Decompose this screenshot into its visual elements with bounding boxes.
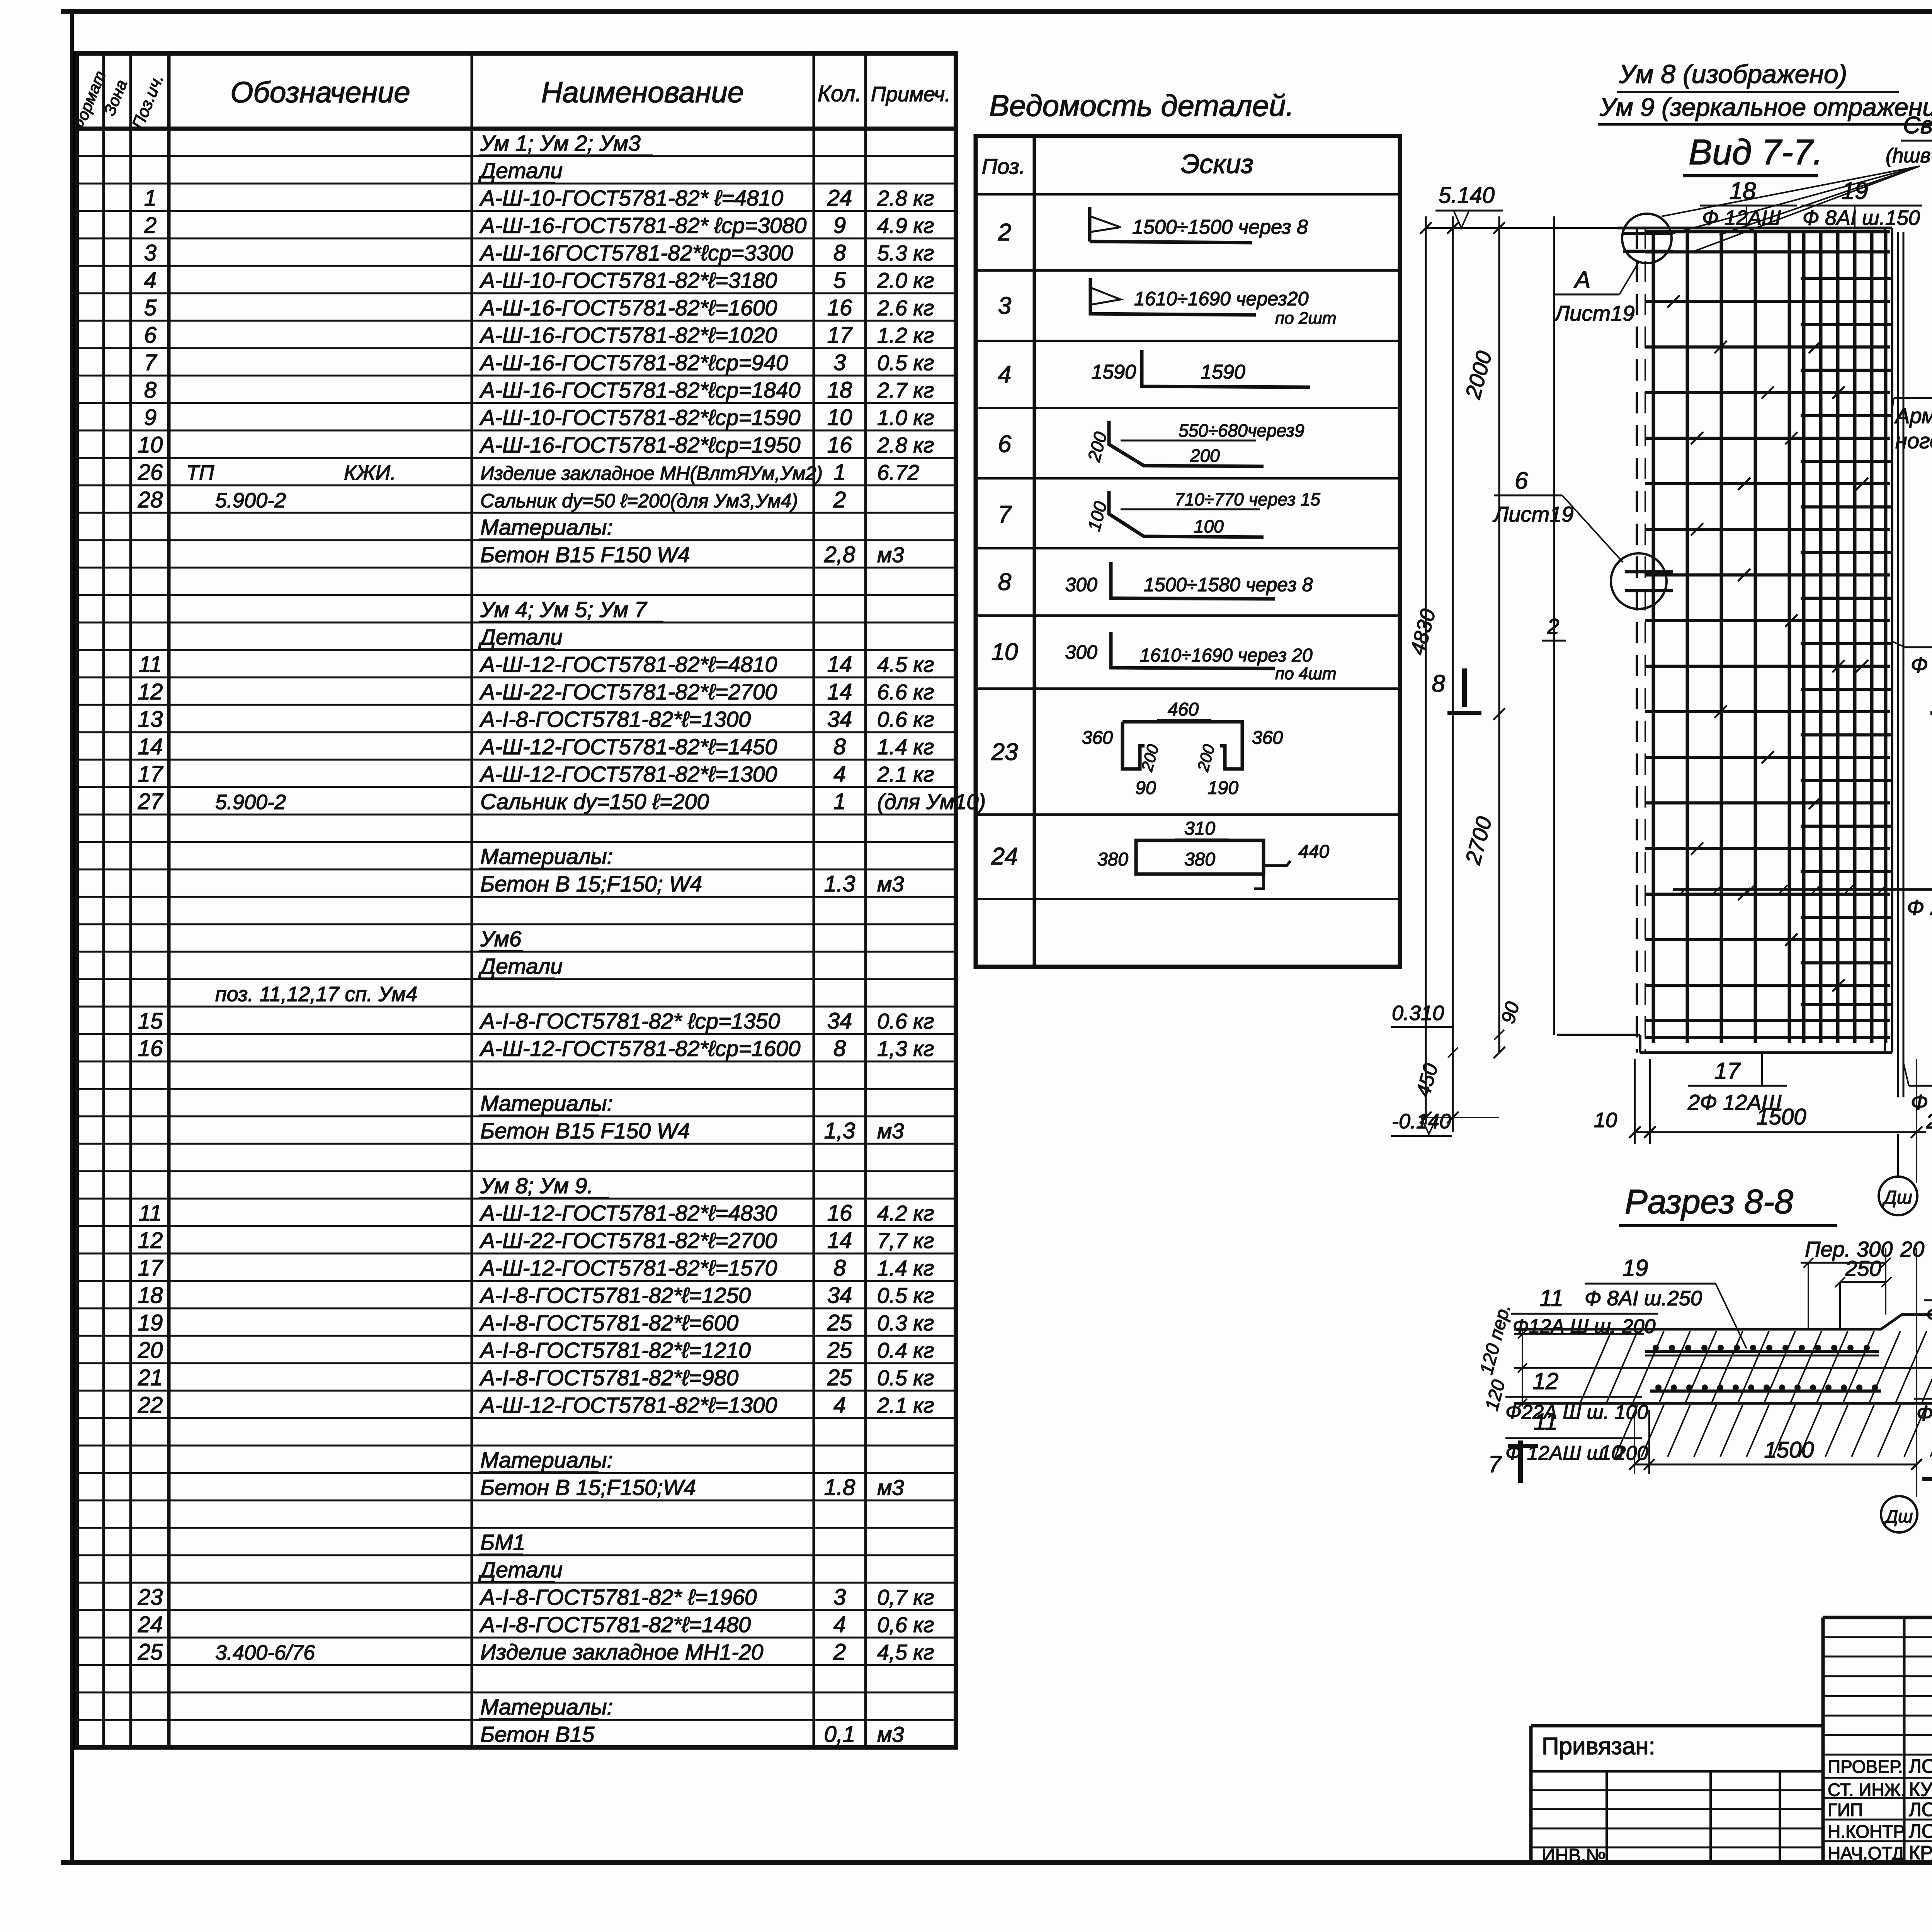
svg-text:2.0 кг: 2.0 кг <box>877 268 934 293</box>
svg-text:450: 450 <box>1412 1061 1442 1099</box>
lower rebar with dots <box>1650 1389 1881 1393</box>
svg-text:300: 300 <box>1065 574 1098 595</box>
svg-text:9: 9 <box>144 405 156 430</box>
svg-text:10: 10 <box>992 639 1018 665</box>
svg-text:2.8 кг: 2.8 кг <box>877 433 934 457</box>
bottom-left bent bar step <box>1557 1034 1640 1036</box>
svg-text:А-I-8-ГОСТ5781-82*ℓ=1300: А-I-8-ГОСТ5781-82*ℓ=1300 <box>479 707 751 732</box>
section mark 8 left <box>1462 668 1467 707</box>
svg-text:Примеч.: Примеч. <box>871 83 951 106</box>
svg-text:КУРГАНОВА: КУРГАНОВА <box>1909 1779 1932 1800</box>
svg-text:1500: 1500 <box>1764 1437 1814 1463</box>
svg-text:Ум 9 (зеркальное отражение): Ум 9 (зеркальное отражение) <box>1599 93 1932 121</box>
svg-text:8: 8 <box>144 378 156 403</box>
specification row lines <box>77 155 956 157</box>
svg-text:2: 2 <box>833 487 846 512</box>
svg-text:Лист19: Лист19 <box>1493 502 1573 526</box>
svg-text:Поз.: Поз. <box>982 154 1026 179</box>
sketch row 7 <box>1109 491 1264 537</box>
svg-text:ИНВ.№: ИНВ.№ <box>1542 1845 1606 1866</box>
svg-text:2000: 2000 <box>1460 349 1496 402</box>
svg-text:А-Ш-12-ГОСТ5781-82*ℓ=1570: А-Ш-12-ГОСТ5781-82*ℓ=1570 <box>479 1256 777 1281</box>
svg-text:ПРОВЕР.: ПРОВЕР. <box>1828 1757 1903 1777</box>
svg-text:Сальник dy=150 ℓ=200: Сальник dy=150 ℓ=200 <box>480 789 709 814</box>
svg-text:Ф22А Ш ш. 100: Ф22А Ш ш. 100 <box>1505 1401 1648 1423</box>
svg-text:(для Ум10): (для Ум10) <box>877 789 986 814</box>
svg-text:А-Ш-22-ГОСТ5781-82*ℓ=2700: А-Ш-22-ГОСТ5781-82*ℓ=2700 <box>479 1228 777 1253</box>
svg-text:25: 25 <box>827 1365 852 1390</box>
svg-text:Арматура мон: Арматура мон <box>1894 403 1932 428</box>
svg-text:6.6 кг: 6.6 кг <box>877 680 934 704</box>
svg-text:0,6 кг: 0,6 кг <box>877 1612 934 1637</box>
svg-text:4: 4 <box>833 1612 846 1637</box>
svg-text:3: 3 <box>144 240 156 265</box>
privyazan box <box>1531 1724 1823 1728</box>
svg-text:1: 1 <box>144 185 156 211</box>
svg-text:А-I-8-ГОСТ5781-82* ℓ=1960: А-I-8-ГОСТ5781-82* ℓ=1960 <box>479 1585 757 1610</box>
svg-text:0.5 кг: 0.5 кг <box>877 1366 934 1390</box>
section marks 7 <box>1518 1440 1523 1483</box>
svg-text:2: 2 <box>998 219 1011 246</box>
svg-text:Эскиз: Эскиз <box>1181 149 1253 179</box>
svg-text:2: 2 <box>833 1639 846 1665</box>
svg-text:100: 100 <box>1083 499 1111 533</box>
diagonal hatch below <box>1615 1405 1638 1457</box>
svg-text:380: 380 <box>1097 849 1128 870</box>
svg-text:ГИП: ГИП <box>1828 1800 1863 1820</box>
svg-text:28: 28 <box>138 487 163 512</box>
sketch row 23 : bracket detail <box>1122 722 1242 769</box>
svg-text:ЛОУЦКЕР: ЛОУЦКЕР <box>1909 1799 1932 1820</box>
svg-text:А-Ш-22-ГОСТ5781-82*ℓ=2700: А-Ш-22-ГОСТ5781-82*ℓ=2700 <box>479 680 777 704</box>
svg-text:24: 24 <box>827 185 852 211</box>
svg-text:23: 23 <box>991 739 1018 765</box>
svg-text:34: 34 <box>827 707 852 732</box>
svg-text:Сальник dy=50 ℓ=200(для Ум3,Ум: Сальник dy=50 ℓ=200(для Ум3,Ум4) <box>480 490 798 512</box>
svg-text:Детали: Детали <box>478 954 563 979</box>
svg-text:13: 13 <box>138 707 163 732</box>
svg-text:А-Ш-12-ГОСТ5781-82*ℓ=4810: А-Ш-12-ГОСТ5781-82*ℓ=4810 <box>479 652 777 677</box>
Dsh circle bottom <box>1881 1496 1917 1532</box>
svg-text:А-I-8-ГОСТ5781-82*ℓ=980: А-I-8-ГОСТ5781-82*ℓ=980 <box>479 1366 739 1390</box>
svg-text:6: 6 <box>1515 468 1528 494</box>
sketch row 2 <box>1090 207 1252 243</box>
svg-text:Бетон В15: Бетон В15 <box>480 1722 595 1747</box>
svg-text:Кол.: Кол. <box>818 81 862 106</box>
svg-text:А-Ш-10-ГОСТ5781-82* ℓ=4810: А-Ш-10-ГОСТ5781-82* ℓ=4810 <box>479 186 783 211</box>
svg-text:2.7 кг: 2.7 кг <box>877 378 934 402</box>
svg-text:БМ1: БМ1 <box>480 1530 525 1555</box>
svg-text:190: 190 <box>1207 778 1238 798</box>
svg-text:11: 11 <box>1539 1285 1563 1311</box>
svg-text:16: 16 <box>827 295 852 320</box>
svg-text:1,3: 1,3 <box>824 1118 855 1143</box>
svg-text:0,1: 0,1 <box>824 1722 855 1747</box>
svg-text:Дш: Дш <box>1884 1506 1913 1526</box>
svg-text:Ф12А Ш ш. 200: Ф12А Ш ш. 200 <box>1513 1315 1656 1338</box>
svg-text:25: 25 <box>827 1338 852 1363</box>
svg-text:ЛОУЦКЕР: ЛОУЦКЕР <box>1909 1755 1932 1777</box>
svg-text:5.3 кг: 5.3 кг <box>877 241 934 265</box>
svg-text:по 2шт: по 2шт <box>1275 309 1337 328</box>
svg-text:310: 310 <box>1184 818 1215 839</box>
svg-text:9: 9 <box>833 213 846 238</box>
svg-text:Поз.ич.: Поз.ич. <box>128 71 167 132</box>
svg-text:Материалы:: Материалы: <box>480 515 613 540</box>
svg-text:20: 20 <box>138 1338 163 1363</box>
svg-text:14: 14 <box>827 652 852 677</box>
svg-text:12: 12 <box>1533 1368 1559 1394</box>
sketch row 8 <box>1111 562 1275 599</box>
svg-text:Привязан:: Привязан: <box>1542 1733 1655 1760</box>
svg-text:6.72: 6.72 <box>877 460 919 485</box>
svg-text:Н.КОНТР: Н.КОНТР <box>1828 1821 1905 1842</box>
label 12 right with bar line <box>1673 888 1932 891</box>
bottom dim 10 1500 <box>1634 1464 1917 1466</box>
svg-text:25: 25 <box>138 1639 163 1665</box>
svg-text:8: 8 <box>833 1036 846 1061</box>
callout circle 6 mid left <box>1611 553 1667 609</box>
svg-text:4.5 кг: 4.5 кг <box>877 652 934 677</box>
svg-text:5.140: 5.140 <box>1439 183 1495 208</box>
svg-text:А-I-8-ГОСТ5781-82*ℓ=1250: А-I-8-ГОСТ5781-82*ℓ=1250 <box>479 1283 751 1308</box>
svg-text:200: 200 <box>1194 742 1218 774</box>
svg-text:21: 21 <box>138 1365 163 1390</box>
svg-text:7: 7 <box>144 350 158 375</box>
wall right edge double line <box>1884 228 1886 1053</box>
svg-text:8: 8 <box>833 734 846 759</box>
svg-text:11: 11 <box>1534 1409 1558 1435</box>
svg-text:1500÷1500 через 8: 1500÷1500 через 8 <box>1132 216 1308 238</box>
svg-text:5.900-2: 5.900-2 <box>215 791 286 814</box>
svg-text:А-I-8-ГОСТ5781-82* ℓср=1350: А-I-8-ГОСТ5781-82* ℓср=1350 <box>479 1009 780 1034</box>
svg-text:КРАСАВИН: КРАСАВИН <box>1909 1842 1932 1864</box>
svg-text:6: 6 <box>998 431 1012 457</box>
svg-text:16: 16 <box>138 1036 163 1061</box>
svg-text:1590: 1590 <box>1201 361 1245 383</box>
vedomost row lines <box>976 193 1400 196</box>
svg-text:ЛОУЦКЕР: ЛОУЦКЕР <box>1909 1820 1932 1842</box>
svg-text:16: 16 <box>827 1201 852 1226</box>
svg-text:А-Ш-16-ГОСТ5781-82*ℓср=1950: А-Ш-16-ГОСТ5781-82*ℓср=1950 <box>479 433 801 457</box>
svg-text:710÷770 через 15: 710÷770 через 15 <box>1175 489 1320 509</box>
svg-text:А-Ш-16-ГОСТ5781-82*ℓ=1020: А-Ш-16-ГОСТ5781-82*ℓ=1020 <box>479 323 777 348</box>
vedomost table box <box>976 136 1400 967</box>
svg-text:Бетон В15 F150 W4: Бетон В15 F150 W4 <box>480 543 690 567</box>
svg-text:Материалы:: Материалы: <box>480 844 613 869</box>
svg-text:Бетон В15 F150 W4: Бетон В15 F150 W4 <box>480 1119 690 1143</box>
svg-text:Лист19: Лист19 <box>1554 301 1634 325</box>
svg-text:м3: м3 <box>877 1722 904 1747</box>
svg-text:А: А <box>1573 267 1590 293</box>
svg-text:А-Ш-16-ГОСТ5781-82*ℓ=1600: А-Ш-16-ГОСТ5781-82*ℓ=1600 <box>479 296 777 320</box>
svg-text:Ф 8АI ш.150: Ф 8АI ш.150 <box>1803 206 1920 230</box>
svg-text:22: 22 <box>138 1393 163 1418</box>
svg-text:3.400-6/76: 3.400-6/76 <box>215 1641 315 1664</box>
sketch row 4 <box>1142 350 1310 387</box>
svg-text:2: 2 <box>144 213 156 238</box>
svg-text:120 пер.: 120 пер. <box>1476 1302 1514 1377</box>
svg-text:1.3: 1.3 <box>824 871 855 896</box>
svg-text:25: 25 <box>827 1310 852 1335</box>
svg-text:А-Ш-12-ГОСТ5781-82*ℓ=4830: А-Ш-12-ГОСТ5781-82*ℓ=4830 <box>479 1201 777 1226</box>
mesh long horizontal bars <box>1645 230 1890 233</box>
sketch row 6 <box>1109 421 1264 466</box>
diagonal hatch beam <box>1580 1331 1611 1403</box>
svg-text:18: 18 <box>1730 178 1756 204</box>
svg-text:19: 19 <box>138 1310 163 1335</box>
svg-text:2700: 2700 <box>1460 814 1496 867</box>
svg-text:440: 440 <box>1298 842 1329 862</box>
svg-text:12: 12 <box>138 679 163 704</box>
svg-text:Ф 8 АI ш. 200: Ф 8 АI ш. 200 <box>1917 1402 1932 1425</box>
svg-text:17: 17 <box>1714 1058 1741 1084</box>
svg-text:10: 10 <box>1600 1441 1623 1464</box>
svg-text:А-I-8-ГОСТ5781-82*ℓ=600: А-I-8-ГОСТ5781-82*ℓ=600 <box>479 1311 739 1335</box>
svg-text:24: 24 <box>138 1612 163 1637</box>
Dsh circle below <box>1879 1177 1917 1215</box>
svg-text:Детали: Детали <box>478 158 563 183</box>
svg-text:11: 11 <box>139 652 162 677</box>
svg-text:4830: 4830 <box>1406 607 1440 658</box>
svg-text:5: 5 <box>833 268 846 293</box>
bottom dimension line 10/1500/20 <box>1635 1131 1926 1133</box>
svg-text:1,3 кг: 1,3 кг <box>877 1036 934 1061</box>
svg-text:Материалы:: Материалы: <box>480 1695 613 1719</box>
sheet frame <box>61 9 1932 14</box>
svg-text:2.1 кг: 2.1 кг <box>877 762 934 786</box>
svg-text:10: 10 <box>138 432 163 457</box>
svg-text:3: 3 <box>998 293 1011 319</box>
svg-text:4: 4 <box>833 1393 846 1418</box>
svg-text:Материалы:: Материалы: <box>480 1448 613 1473</box>
mesh short horizontal bars right half <box>1801 277 1891 280</box>
svg-text:Ф 8АIш. 200: Ф 8АIш. 200 <box>1926 1303 1932 1326</box>
svg-text:14: 14 <box>138 734 163 759</box>
svg-text:3: 3 <box>833 350 846 375</box>
svg-text:10: 10 <box>1594 1109 1617 1132</box>
svg-text:м3: м3 <box>877 872 904 896</box>
svg-text:4: 4 <box>833 762 846 787</box>
svg-text:Ф 8АI ш.250: Ф 8АI ш.250 <box>1585 1287 1702 1310</box>
svg-text:17: 17 <box>138 762 164 787</box>
svg-text:250: 250 <box>1845 1256 1881 1281</box>
svg-text:12: 12 <box>138 1228 163 1253</box>
svg-text:460: 460 <box>1168 699 1199 720</box>
svg-text:2.6 кг: 2.6 кг <box>877 296 934 320</box>
svg-text:по 4шт: по 4шт <box>1275 664 1337 683</box>
svg-text:7: 7 <box>998 501 1012 528</box>
svg-text:0.4 кг: 0.4 кг <box>877 1338 934 1362</box>
svg-text:1610÷1690 через 20: 1610÷1690 через 20 <box>1140 645 1313 666</box>
svg-text:2.1 кг: 2.1 кг <box>877 1393 934 1417</box>
svg-text:А-Ш-16-ГОСТ5781-82*ℓср=940: А-Ш-16-ГОСТ5781-82*ℓср=940 <box>479 350 788 375</box>
svg-text:4.2 кг: 4.2 кг <box>877 1201 934 1225</box>
sketch row 10 <box>1111 632 1275 668</box>
svg-text:100: 100 <box>1194 516 1224 536</box>
svg-text:Ум 8 (изображено): Ум 8 (изображено) <box>1619 60 1847 89</box>
svg-text:2,8: 2,8 <box>824 542 855 567</box>
svg-text:8: 8 <box>998 569 1012 595</box>
svg-text:17: 17 <box>827 323 853 348</box>
Dsh circle top <box>1897 1134 1899 1176</box>
upper rebar with section dots <box>1645 1350 1879 1353</box>
svg-text:15: 15 <box>138 1009 163 1034</box>
svg-text:Ум6: Ум6 <box>480 927 522 951</box>
svg-text:4: 4 <box>998 361 1011 388</box>
svg-text:Изделие закладное МН(ВлтЯУм,Ум: Изделие закладное МН(ВлтЯУм,Ум2) <box>480 463 823 484</box>
svg-text:Ф 12АШ: Ф 12АШ <box>1702 206 1781 230</box>
svg-text:Материалы:: Материалы: <box>480 1091 613 1116</box>
svg-text:0.3 кг: 0.3 кг <box>877 1311 934 1335</box>
svg-text:16: 16 <box>827 432 852 457</box>
svg-text:2.8 кг: 2.8 кг <box>877 186 934 210</box>
svg-text:14: 14 <box>827 1228 852 1253</box>
svg-text:КЖИ.: КЖИ. <box>344 461 396 485</box>
svg-text:Вид 7-7.: Вид 7-7. <box>1689 133 1823 172</box>
svg-text:НАЧ.ОТД: НАЧ.ОТД <box>1828 1843 1904 1863</box>
svg-text:Ум 1; Ум 2; Ум3: Ум 1; Ум 2; Ум3 <box>480 131 641 156</box>
svg-text:Разрез 8-8: Разрез 8-8 <box>1625 1182 1793 1221</box>
svg-text:1.0 кг: 1.0 кг <box>877 405 934 430</box>
weld tick marks on mesh intersections <box>1667 295 1680 308</box>
svg-text:90: 90 <box>1135 778 1156 798</box>
svg-text:Наименование: Наименование <box>541 76 744 109</box>
sketch row 24 : plate detail <box>1136 840 1264 874</box>
svg-text:1610÷1690 через20: 1610÷1690 через20 <box>1134 288 1309 310</box>
svg-text:Изделие закладное МН1-20: Изделие закладное МН1-20 <box>480 1640 764 1665</box>
svg-text:СТ. ИНЖ.: СТ. ИНЖ. <box>1828 1780 1906 1800</box>
svg-text:А-Ш-12-ГОСТ5781-82*ℓ=1450: А-Ш-12-ГОСТ5781-82*ℓ=1450 <box>479 735 777 759</box>
svg-text:17: 17 <box>138 1255 164 1281</box>
svg-text:34: 34 <box>827 1009 852 1034</box>
svg-text:м3: м3 <box>877 1119 904 1143</box>
svg-text:26: 26 <box>138 460 163 485</box>
wall outline top <box>1617 227 1892 230</box>
svg-text:200: 200 <box>1190 446 1220 466</box>
svg-text:Бетон В 15;F150; W4: Бетон В 15;F150; W4 <box>480 872 702 896</box>
svg-text:19: 19 <box>1622 1255 1648 1281</box>
svg-text:м3: м3 <box>877 543 904 567</box>
svg-text:18: 18 <box>827 378 852 403</box>
specification table outer border <box>77 53 956 1747</box>
svg-text:2: 2 <box>1547 614 1559 638</box>
sketch row 3 <box>1090 278 1256 315</box>
svg-text:1: 1 <box>833 460 846 485</box>
svg-text:А-Ш-12-ГОСТ5781-82*ℓ=1300: А-Ш-12-ГОСТ5781-82*ℓ=1300 <box>479 762 777 787</box>
svg-text:5.900-2: 5.900-2 <box>215 489 286 512</box>
wall bottom <box>1640 1051 1892 1054</box>
svg-text:А-Ш-16ГОСТ5781-82*ℓср=3300: А-Ш-16ГОСТ5781-82*ℓср=3300 <box>479 241 793 265</box>
svg-text:360: 360 <box>1082 728 1113 748</box>
wall outline left dashed <box>1636 228 1638 1053</box>
beam top outline <box>1514 1315 1932 1330</box>
svg-text:4.9 кг: 4.9 кг <box>877 213 934 238</box>
svg-text:1.2 кг: 1.2 кг <box>877 323 934 347</box>
svg-text:8: 8 <box>1432 670 1446 697</box>
svg-text:А-Ш-16-ГОСТ5781-82* ℓср=3080: А-Ш-16-ГОСТ5781-82* ℓср=3080 <box>479 213 807 238</box>
svg-text:7,7 кг: 7,7 кг <box>877 1228 934 1253</box>
leaders from weld note to mesh corner <box>1662 166 1920 216</box>
svg-text:18: 18 <box>138 1283 163 1308</box>
svg-text:11: 11 <box>139 1201 162 1226</box>
svg-text:300: 300 <box>1065 641 1098 663</box>
svg-text:4,5 кг: 4,5 кг <box>877 1640 934 1664</box>
svg-text:1590: 1590 <box>1091 361 1136 383</box>
specification header row <box>77 127 956 131</box>
svg-text:м3: м3 <box>877 1475 904 1500</box>
svg-text:ТП: ТП <box>186 461 214 485</box>
svg-text:А-I-8-ГОСТ5781-82*ℓ=1210: А-I-8-ГОСТ5781-82*ℓ=1210 <box>479 1338 751 1363</box>
svg-text:А-I-8-ГОСТ5781-82*ℓ=1480: А-I-8-ГОСТ5781-82*ℓ=1480 <box>479 1612 751 1637</box>
svg-text:14: 14 <box>827 679 852 704</box>
svg-text:А-Ш-10-ГОСТ5781-82*ℓср=1590: А-Ш-10-ГОСТ5781-82*ℓср=1590 <box>479 405 801 430</box>
svg-text:3: 3 <box>833 1585 846 1610</box>
svg-text:А-Ш-12-ГОСТ5781-82*ℓ=1300: А-Ш-12-ГОСТ5781-82*ℓ=1300 <box>479 1393 777 1418</box>
svg-text:А-Ш-16-ГОСТ5781-82*ℓср=1840: А-Ш-16-ГОСТ5781-82*ℓср=1840 <box>479 378 801 403</box>
svg-text:8: 8 <box>833 240 846 265</box>
svg-text:поз. 11,12,17 сп. Ум4: поз. 11,12,17 сп. Ум4 <box>215 983 417 1006</box>
svg-text:200: 200 <box>1083 430 1111 464</box>
svg-text:Ф 22АШ ш.100: Ф 22АШ ш.100 <box>1907 895 1932 920</box>
svg-text:ного участка: ного участка <box>1895 429 1932 453</box>
svg-text:Сварной шов: Сварной шов <box>1903 112 1932 139</box>
svg-text:0,7 кг: 0,7 кг <box>877 1585 934 1609</box>
svg-text:8: 8 <box>833 1255 846 1281</box>
svg-text:Бетон В 15;F150;W4: Бетон В 15;F150;W4 <box>480 1475 696 1500</box>
svg-text:Ум 4; Ум 5; Ум 7: Ум 4; Ум 5; Ум 7 <box>480 597 648 622</box>
svg-text:0.6 кг: 0.6 кг <box>877 1009 934 1033</box>
svg-text:20: 20 <box>1926 1110 1932 1133</box>
svg-text:550÷680через9: 550÷680через9 <box>1179 420 1304 440</box>
mesh vertical bars <box>1652 233 1655 1043</box>
svg-text:10: 10 <box>827 405 852 430</box>
svg-text:380: 380 <box>1184 849 1215 870</box>
middle lines <box>1514 1367 1932 1369</box>
svg-text:0.5 кг: 0.5 кг <box>877 1283 934 1308</box>
svg-text:Ф 12АШ ш. 200: Ф 12АШ ш. 200 <box>1911 653 1932 677</box>
svg-text:Дш: Дш <box>1882 1187 1912 1208</box>
svg-text:90: 90 <box>1497 999 1524 1026</box>
svg-text:0.310: 0.310 <box>1392 1002 1444 1025</box>
approvals stamp grid <box>1821 1617 1825 1863</box>
monolithic bars right of wall <box>1897 232 1899 1097</box>
svg-text:34: 34 <box>827 1283 852 1308</box>
svg-text:5: 5 <box>144 295 157 320</box>
svg-text:27: 27 <box>138 789 164 814</box>
svg-text:1: 1 <box>833 789 846 814</box>
svg-text:-0.140: -0.140 <box>1392 1110 1451 1133</box>
svg-text:20: 20 <box>1900 1237 1924 1261</box>
armatura monolit label right <box>1894 397 1932 399</box>
svg-text:А-Ш-12-ГОСТ5781-82*ℓср=1600: А-Ш-12-ГОСТ5781-82*ℓср=1600 <box>479 1036 801 1061</box>
svg-text:Ум 8; Ум 9.: Ум 8; Ум 9. <box>480 1173 593 1198</box>
svg-text:1.4 кг: 1.4 кг <box>877 735 934 759</box>
svg-text:19: 19 <box>1842 178 1868 204</box>
svg-text:6: 6 <box>144 323 157 348</box>
step hatch right <box>1905 1313 1932 1316</box>
svg-text:4: 4 <box>144 268 156 293</box>
callout circle A top left <box>1622 214 1672 263</box>
svg-text:1.8: 1.8 <box>824 1475 855 1500</box>
svg-text:7: 7 <box>1488 1451 1502 1477</box>
svg-text:Детали: Детали <box>478 625 563 650</box>
svg-text:360: 360 <box>1252 728 1283 748</box>
beam bottom outline <box>1514 1402 1932 1405</box>
svg-text:1.4 кг: 1.4 кг <box>877 1256 934 1280</box>
svg-text:А-Ш-10-ГОСТ5781-82*ℓ=3180: А-Ш-10-ГОСТ5781-82*ℓ=3180 <box>479 268 777 293</box>
svg-text:Детали: Детали <box>478 1558 563 1582</box>
